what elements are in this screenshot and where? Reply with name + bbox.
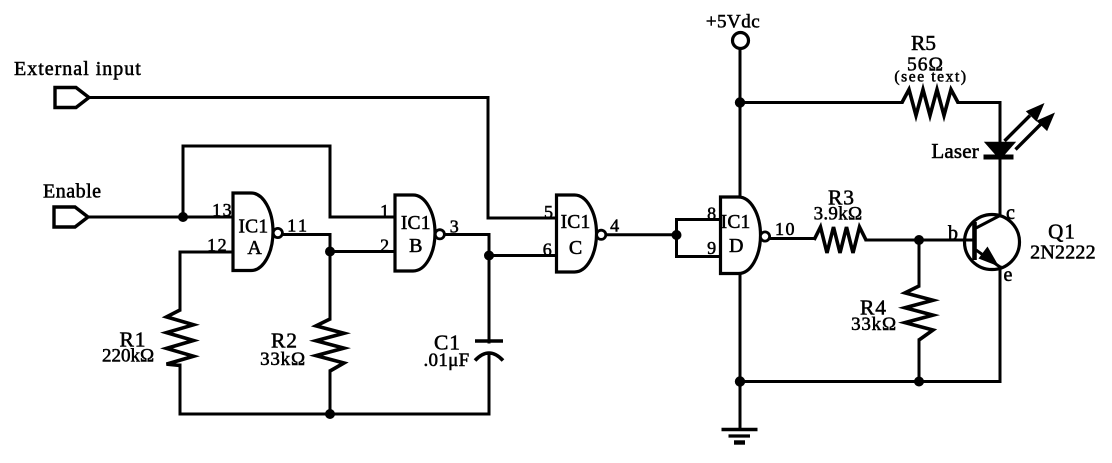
wire R4 bottom	[918, 340, 921, 382]
svg-text:4: 4	[610, 216, 619, 236]
svg-text:e: e	[1004, 264, 1013, 286]
laser diode	[984, 143, 1015, 158]
junction dot ground rail left	[735, 376, 745, 386]
resistor R3	[814, 227, 866, 253]
wire bottom-left rail	[180, 413, 489, 416]
wire gate A output to node	[283, 235, 331, 252]
wire emitter down	[999, 267, 1002, 382]
junction dot enable	[178, 212, 188, 222]
gate IC1 D body	[721, 197, 770, 274]
svg-text:1: 1	[380, 201, 389, 221]
Q1 emitter stroke	[976, 250, 1000, 267]
resistor R1	[167, 310, 194, 366]
gate IC1 C body	[557, 195, 606, 272]
wire gate D output to R3	[770, 237, 815, 240]
junction dot C1 node	[484, 251, 494, 261]
terminal +5Vdc	[733, 33, 749, 49]
ground	[722, 430, 758, 443]
bubble gate A	[273, 228, 282, 237]
svg-text:b: b	[948, 223, 958, 245]
bubble gate B	[435, 230, 444, 239]
svg-text:13: 13	[212, 200, 233, 220]
Q1 base bar	[972, 222, 977, 260]
resistor R5	[902, 90, 958, 116]
junction dot bracket node	[672, 230, 682, 240]
wire top rail to R5	[740, 101, 902, 104]
wire +5V rail vertical	[739, 49, 742, 382]
svg-text:2N2222: 2N2222	[1030, 242, 1096, 264]
bubble gate C	[597, 230, 606, 239]
svg-text:External input: External input	[14, 58, 142, 80]
Q1 emitter arrowhead	[979, 247, 1000, 267]
svg-text:IC1: IC1	[721, 212, 751, 233]
wire bottom-right rail	[740, 380, 1000, 383]
transistor Q1	[965, 215, 1020, 270]
svg-text:8: 8	[707, 204, 716, 224]
svg-text:c: c	[1006, 202, 1015, 224]
wire R1 bottom	[179, 365, 182, 414]
svg-text:5: 5	[544, 202, 553, 222]
svg-text:Q1: Q1	[1048, 220, 1076, 244]
junction dot +5V rail	[735, 97, 745, 107]
bubble gate D	[760, 232, 769, 241]
wire node to R2	[329, 252, 332, 320]
svg-text:6: 6	[543, 240, 552, 260]
wire feedback loop	[183, 146, 395, 217]
resistor R4	[905, 286, 933, 340]
wire bracket to gate D pins 8,9	[677, 220, 721, 257]
junction dot gate A out node	[325, 247, 335, 257]
svg-text:12: 12	[207, 235, 228, 255]
svg-text:9: 9	[707, 238, 716, 258]
wire R2 bottom	[329, 371, 332, 414]
wire node to gate B pin2	[330, 250, 395, 253]
connector External input	[55, 88, 89, 108]
svg-text:IC1: IC1	[401, 213, 431, 234]
svg-text:33kΩ: 33kΩ	[260, 349, 306, 370]
gate IC1 B body	[395, 195, 444, 271]
svg-text:10: 10	[775, 219, 796, 239]
svg-text:R5: R5	[911, 31, 936, 55]
svg-text:11: 11	[287, 216, 309, 236]
wire gate C output to bracket	[606, 233, 677, 236]
wire ground stem	[739, 382, 742, 430]
svg-text:D: D	[729, 235, 743, 257]
wire gate B output to C1 branch	[445, 235, 490, 343]
svg-text:3.9kΩ: 3.9kΩ	[814, 204, 863, 225]
wire R4 top	[918, 240, 921, 286]
svg-text:33kΩ: 33kΩ	[851, 314, 897, 335]
svg-text:220kΩ: 220kΩ	[102, 346, 154, 367]
wire node to gate C pin6	[489, 254, 557, 257]
wire gate A pin12 to R1	[180, 252, 233, 310]
svg-text:C: C	[569, 237, 582, 259]
laser emission arrow 1	[1005, 103, 1045, 141]
svg-text:Laser: Laser	[931, 139, 979, 163]
junction dot base node	[914, 235, 924, 245]
wire laser cathode to collector	[999, 160, 1002, 216]
svg-text:A: A	[247, 237, 262, 259]
svg-text:.01μF: .01μF	[423, 350, 469, 371]
svg-text:+5Vdc: +5Vdc	[706, 12, 760, 33]
Q1 collector stroke	[976, 216, 1000, 229]
svg-text:Enable: Enable	[43, 181, 102, 203]
wire C1 bottom	[488, 355, 491, 414]
svg-text:3: 3	[450, 217, 459, 237]
wire R3 to base	[866, 239, 972, 242]
junction dot R4 bottom rail	[914, 377, 924, 387]
connector Enable	[54, 207, 88, 227]
wire R5 to laser	[958, 103, 1000, 144]
capacitor C1	[475, 341, 503, 361]
wire enable run	[88, 216, 233, 219]
svg-text:2: 2	[380, 236, 389, 256]
svg-text:(see text): (see text)	[894, 69, 967, 86]
laser emission arrow 2	[1016, 113, 1056, 150]
svg-text:B: B	[409, 235, 422, 257]
svg-text:IC1: IC1	[561, 212, 591, 233]
resistor R2	[316, 319, 344, 371]
op-amp gate IC1 A body	[233, 193, 282, 271]
junction dot R2 bottom rail	[325, 409, 335, 419]
wire external input run	[89, 98, 557, 219]
svg-text:IC1: IC1	[238, 217, 268, 238]
